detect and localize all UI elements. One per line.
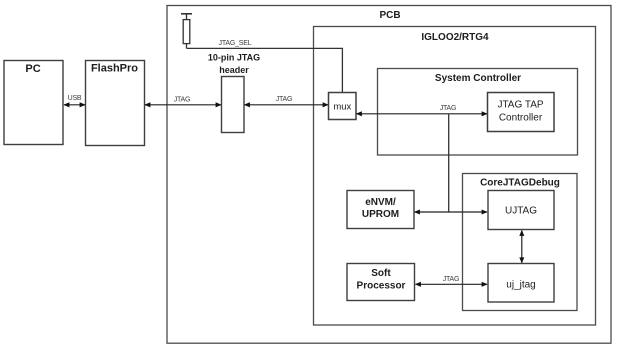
wire JTAG: FlashPro - header xyxy=(145,104,221,106)
IGLOO2/RTG4 box xyxy=(314,27,596,326)
svg-text:10-pin JTAG: 10-pin JTAG xyxy=(208,53,260,63)
svg-text:mux: mux xyxy=(333,102,351,113)
svg-text:JTAG TAP: JTAG TAP xyxy=(497,100,543,111)
svg-text:eNVM/: eNVM/ xyxy=(365,197,396,208)
svg-text:UJTAG: UJTAG xyxy=(505,206,537,217)
UJTAG box xyxy=(488,191,554,230)
PCB box xyxy=(167,6,611,344)
uj_jtag box xyxy=(488,264,554,303)
svg-text:Controller: Controller xyxy=(499,113,543,124)
svg-text:JTAG: JTAG xyxy=(174,97,191,104)
svg-text:PC: PC xyxy=(25,63,40,75)
PC box xyxy=(4,61,63,145)
svg-text:header: header xyxy=(219,65,249,75)
svg-text:Soft: Soft xyxy=(371,268,391,279)
svg-text:JTAG: JTAG xyxy=(443,276,460,283)
JTAG TAP Controller box xyxy=(488,93,555,132)
10-pin JTAG header box xyxy=(222,77,245,133)
mux box xyxy=(329,93,357,120)
svg-text:JTAG: JTAG xyxy=(440,105,457,112)
Soft Processor box xyxy=(347,264,415,301)
FlashPro box xyxy=(86,61,145,146)
wire: junction drop from JTAG line to eNVM/UJTAG line xyxy=(448,114,450,212)
svg-text:USB: USB xyxy=(68,95,82,102)
wire JTAG: header - mux xyxy=(245,104,329,106)
svg-text:uj_jtag: uj_jtag xyxy=(506,279,535,290)
wire: UJTAG - uj_jtag xyxy=(521,231,523,263)
wire: eNVM/UPROM - UJTAG xyxy=(415,211,488,213)
svg-text:CoreJTAGDebug: CoreJTAGDebug xyxy=(480,178,560,189)
CoreJTAGDebug box xyxy=(463,174,578,311)
svg-text:FlashPro: FlashPro xyxy=(91,63,138,75)
wire JTAG_SEL: resistor - mux top xyxy=(187,48,343,92)
svg-text:IGLOO2/RTG4: IGLOO2/RTG4 xyxy=(421,32,489,43)
svg-text:JTAG: JTAG xyxy=(276,96,293,103)
resistor R (pull-up) xyxy=(181,14,192,49)
svg-text:UPROM: UPROM xyxy=(362,209,399,220)
svg-text:JTAG_SEL: JTAG_SEL xyxy=(219,40,252,47)
eNVM/UPROM box xyxy=(347,191,414,229)
wire USB: PC - FlashPro xyxy=(64,104,85,106)
wire JTAG: Soft Processor - uj_jtag xyxy=(416,283,488,285)
svg-text:Processor: Processor xyxy=(357,281,406,292)
svg-text:PCB: PCB xyxy=(379,10,400,21)
System Controller box xyxy=(378,69,578,156)
wire JTAG: mux - JTAG TAP Controller xyxy=(357,113,488,115)
svg-text:System Controller: System Controller xyxy=(435,73,521,84)
